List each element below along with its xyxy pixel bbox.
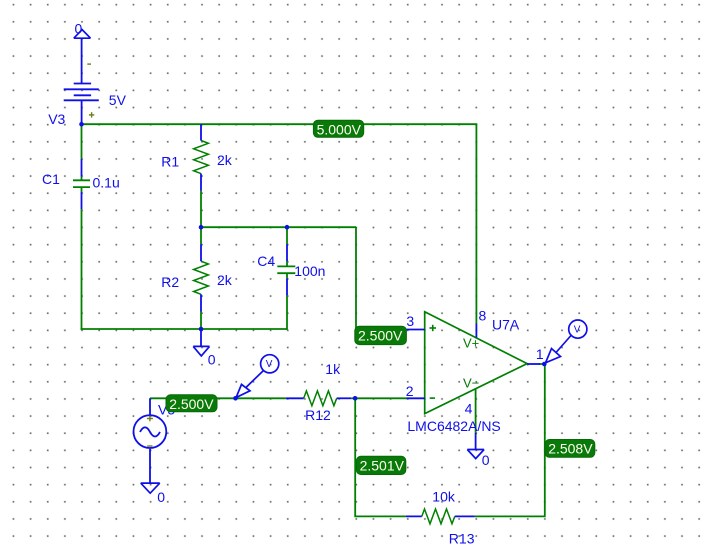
svg-text:5V: 5V <box>109 92 127 108</box>
svg-text:1: 1 <box>536 346 544 362</box>
svg-text:2.500V: 2.500V <box>358 327 403 343</box>
svg-text:V−: V− <box>463 376 479 391</box>
svg-text:LMC6482A/NS: LMC6482A/NS <box>407 418 500 434</box>
svg-text:R12: R12 <box>305 407 331 423</box>
svg-text:0: 0 <box>75 20 83 36</box>
svg-text:10k: 10k <box>432 488 456 504</box>
svg-text:2.501V: 2.501V <box>360 458 405 474</box>
svg-text:100n: 100n <box>294 263 325 279</box>
svg-text:3: 3 <box>406 313 414 329</box>
svg-text:2k: 2k <box>217 152 233 168</box>
svg-text:R2: R2 <box>161 274 179 290</box>
svg-text:2.508V: 2.508V <box>548 441 593 457</box>
svg-text:C1: C1 <box>42 171 60 187</box>
svg-text:U7A: U7A <box>492 316 520 332</box>
svg-text:0: 0 <box>157 489 165 505</box>
svg-text:0.1u: 0.1u <box>93 175 120 191</box>
svg-text:2.500V: 2.500V <box>169 396 214 412</box>
svg-text:1k: 1k <box>325 361 341 377</box>
svg-text:R13: R13 <box>449 531 475 547</box>
svg-text:V3: V3 <box>48 111 65 127</box>
svg-text:V: V <box>266 359 273 370</box>
svg-text:C4: C4 <box>257 253 275 269</box>
svg-text:2k: 2k <box>217 272 233 288</box>
svg-text:0: 0 <box>208 352 216 368</box>
svg-text:2: 2 <box>406 383 414 399</box>
svg-text:R1: R1 <box>161 154 179 170</box>
svg-text:0: 0 <box>482 452 490 468</box>
svg-text:V+: V+ <box>463 336 479 351</box>
svg-text:4: 4 <box>465 401 473 417</box>
svg-text:8: 8 <box>479 308 487 324</box>
svg-text:V: V <box>574 324 581 335</box>
svg-text:5.000V: 5.000V <box>317 121 362 137</box>
